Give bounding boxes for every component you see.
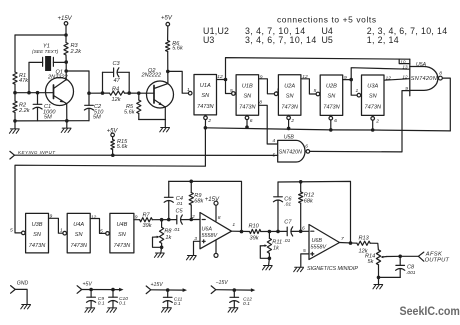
wire Q2 emitter to ground [164,107,166,120]
svg-text:6: 6 [250,118,253,124]
svg-text:6: 6 [305,144,308,150]
capacitor C7 [286,227,288,236]
svg-text:U1A: U1A [200,83,211,89]
svg-text:5: 5 [10,228,13,234]
wire C7 to U6B pin6 [292,230,309,232]
wire Q1 base [15,92,54,94]
svg-text:U3: U3 [203,35,214,45]
svg-text:.01: .01 [284,238,291,244]
svg-text:1, 2, 14: 1, 2, 14 [367,35,399,45]
svg-text:2: 2 [191,214,195,220]
svg-text:1: 1 [187,87,190,93]
wire U6A output [232,230,250,232]
wire C8/R14 to ground [379,276,401,278]
-15V terminal at U6A pin4 [215,240,217,253]
svg-text:7473N: 7473N [114,243,131,249]
ground at R8 [160,247,163,253]
svg-text:SN: SN [75,232,84,238]
svg-text:2.2k: 2.2k [18,108,31,114]
nand gate U5B [278,140,305,162]
wire feedback U1A to U5A pin10 [226,58,410,80]
resistor R15 [112,137,114,140]
svg-text:6: 6 [302,226,305,232]
wire R10 to C7 [261,230,287,232]
svg-text:0.1: 0.1 [174,301,181,307]
wire R14 wiper to output [387,255,419,257]
svg-text:U5B: U5B [284,134,295,140]
keying input arrow [10,151,15,159]
svg-text:U6A: U6A [202,227,213,233]
svg-text:2N2222: 2N2222 [141,73,162,79]
svg-text:SN: SN [118,232,127,238]
svg-text:C3: C3 [113,61,121,67]
svg-text:+5V: +5V [83,282,93,288]
svg-text:3, 4, 6, 7, 10, 14: 3, 4, 6, 7, 10, 14 [245,35,317,45]
ground at R2 [14,121,16,129]
svg-text:.001: .001 [406,270,416,276]
svg-text:68k: 68k [194,198,204,204]
wire bottom rail [15,120,89,122]
svg-text:R10: R10 [249,224,260,230]
resistor R6 [167,26,169,41]
resistor R2 [14,93,16,101]
wire reset bus [205,128,450,131]
svg-text:OUTPUT: OUTPUT [425,258,450,264]
svg-text:GND: GND [17,281,29,287]
pin 2 stub U1A [204,116,208,120]
pin 5 bubble U3B [22,231,26,235]
svg-text:U3B: U3B [32,222,43,228]
resistor R13 [357,241,370,245]
svg-text:U6B: U6B [312,238,323,244]
wire R4 to Q2 base [125,92,147,94]
wire U2B pin9 junction [343,79,352,81]
svg-text:6: 6 [334,118,337,124]
wire R7 to C5 [152,219,176,221]
svg-text:connections to +5 volts: connections to +5 volts [277,15,377,25]
svg-text:7473N: 7473N [239,104,256,110]
capacitor C3 [102,72,104,93]
svg-text:0.1: 0.1 [243,301,250,307]
svg-text:7473N: 7473N [281,104,298,110]
svg-text:8: 8 [218,215,221,221]
svg-text:5.6k: 5.6k [117,144,129,150]
flip-flop U2B [320,75,343,115]
wire bus up to U5A output [442,78,450,131]
resistor R3 [65,35,67,43]
svg-text:U4B: U4B [116,222,127,228]
wire Q2 collector to U1A pin 1 [168,71,188,93]
wire U6B output [340,242,357,245]
svg-text:7473N: 7473N [70,243,87,249]
potentiometer R14 [376,250,380,265]
svg-text:5.6k: 5.6k [172,45,184,51]
wire Q1 collector [65,62,67,80]
svg-text:R12: R12 [304,193,315,199]
ground at R11 [268,258,271,265]
flip-flop U3A [362,75,385,115]
svg-text:12: 12 [91,215,97,221]
resistor R1 [13,72,17,84]
resistor R5 [138,93,140,100]
wire bus to U3B clock [204,126,208,130]
svg-text:C5: C5 [176,208,184,214]
flip-flop U4A [67,213,90,253]
flip-flop U3B [26,213,49,253]
resistor R4 [110,91,125,95]
capacitor C10 [112,290,114,298]
svg-text:+5V: +5V [161,15,173,21]
svg-text:R7: R7 [143,213,151,219]
svg-text:0.1: 0.1 [119,301,126,307]
capacitor C5 [176,215,178,224]
wire collector to C2 [66,70,89,72]
svg-text:C7: C7 [284,220,292,226]
svg-text:U3A: U3A [367,84,378,90]
capacitor C4 [168,181,170,197]
wire U6A pin3 to ground [194,241,201,255]
svg-text:7: 7 [341,236,344,242]
svg-text:1: 1 [232,222,235,228]
potentiometer R8 [161,220,163,228]
wire U1B pin9 to U2A pin1 [259,79,275,94]
svg-text:.01: .01 [284,201,291,207]
wire U4A pin12 to U4B pin5 [90,219,105,234]
svg-text:9: 9 [260,75,263,81]
svg-text:7473N: 7473N [323,105,340,111]
wire U5A pin9 from U5B output [310,91,410,152]
svg-text:5M: 5M [44,115,52,121]
wire keying input line [15,154,278,156]
svg-text:5M: 5M [93,115,101,121]
svg-text:SN: SN [33,232,42,238]
svg-text:SN: SN [243,93,252,99]
wire U3A pin12 to U5A pin12 [385,79,410,81]
wire node to C3/R4 [89,92,110,94]
svg-text:.01: .01 [173,227,180,233]
svg-text:Y1: Y1 [43,44,50,50]
pin 2 stub U3A [371,117,375,121]
svg-text:SeekIC.com: SeekIC.com [400,305,460,318]
transistor Q2 [147,81,174,108]
capacitor C9 [90,290,92,298]
resistor R10 [250,229,261,233]
svg-text:7473N: 7473N [365,105,382,111]
svg-text:AFSK: AFSK [425,251,443,257]
svg-text:5: 5 [303,248,306,254]
wire Q2 collector [167,71,169,83]
svg-text:U2A: U2A [284,83,295,89]
svg-text:.01: .01 [176,201,183,207]
svg-text:0.1: 0.1 [98,301,105,307]
wire U2B pin9 to U5A pin13 [351,68,410,80]
svg-text:39k: 39k [143,223,153,229]
svg-text:U5: U5 [322,35,333,45]
svg-text:+15V: +15V [58,16,73,22]
svg-text:SIGNETICS MINIDIP: SIGNETICS MINIDIP [307,266,358,272]
wire Q1 emitter to ground [66,104,68,121]
wire R13 to R14 [370,243,378,250]
wire +15V to rail [65,26,67,35]
svg-text:(SEE TEXT): (SEE TEXT) [32,49,59,55]
resistor R7 [140,218,153,222]
resistor R12 [299,180,303,184]
svg-text:+15V: +15V [151,282,164,288]
svg-text:SN: SN [286,93,295,99]
svg-text:5.6k: 5.6k [124,110,136,116]
wire top rail to R1 [15,34,66,36]
capacitor C2 [88,93,90,105]
wire feedback line stage 1 [169,181,242,231]
svg-text:U2B: U2B [326,84,337,90]
svg-text:2: 2 [375,118,379,124]
nand gate U5A [410,67,438,91]
GND input [11,286,16,294]
pin 6 stub U2B [329,116,333,120]
op-amp U6A [200,213,232,249]
resistor R9 [189,180,193,184]
capacitor C8 [399,256,401,265]
AFSK output arrow [418,252,423,261]
crystal Y1 [42,57,44,66]
wire U2A pin12 to U2B pin5 [301,79,316,94]
svg-text:47k: 47k [19,78,29,84]
svg-text:47: 47 [114,78,121,84]
svg-text:2.2k: 2.2k [70,49,83,55]
flip-flop U1A [194,75,217,115]
svg-text:2N2222: 2N2222 [47,75,68,81]
svg-text:7473N: 7473N [197,104,214,110]
svg-text:−15V: −15V [216,280,229,286]
wire U6B pin5 to ground [301,254,309,267]
+15V input [146,286,151,294]
-15V input [211,286,216,294]
wire C5 to U6A pin2 [181,219,200,221]
svg-text:39k: 39k [250,235,260,241]
svg-text:13: 13 [402,65,408,70]
wire U3B pin9 to U4A pin1 [49,218,63,233]
svg-text:2: 2 [290,118,294,124]
svg-text:SN7420N: SN7420N [279,150,302,156]
wire U4B pin9 to R7 [134,219,140,221]
svg-text:SN: SN [201,93,210,99]
wire feedback line stage 2 [278,181,351,243]
capacitor C11 [167,290,169,297]
flip-flop U4B [110,213,134,253]
svg-text:12: 12 [402,74,408,79]
svg-text:5558V: 5558V [311,244,328,250]
svg-text:8: 8 [439,71,442,77]
svg-text:4: 4 [272,138,275,144]
wire crystal branch [27,91,31,95]
svg-text:8: 8 [259,100,262,106]
capacitor C1 [36,91,40,95]
svg-text:R13: R13 [359,236,370,242]
wire R5/emitter rail [139,119,166,121]
svg-text:R4: R4 [112,87,119,93]
svg-text:U4A: U4A [73,222,84,228]
capacitor C12 [233,290,235,297]
svg-text:2: 2 [207,118,211,124]
svg-text:68k: 68k [304,199,314,205]
svg-text:U5A: U5A [416,62,427,68]
potentiometer R11 [268,232,270,239]
svg-text:C8: C8 [407,265,415,271]
capacitor C6 [277,182,279,197]
wire U1B pin8 to U5B pin4 [259,105,278,144]
svg-text:R8: R8 [164,229,172,235]
op-amp U6B [309,225,340,260]
wire Q2 base inside circle [146,92,154,94]
svg-text:SN: SN [328,94,337,100]
svg-text:12k: 12k [112,97,122,103]
svg-text:5558V: 5558V [202,233,219,239]
flip-flop U1B [236,75,259,115]
flip-flop U2A [278,75,301,115]
wire U1A pin12 to U1B pin5 [217,79,226,81]
svg-text:KEYING INPUT: KEYING INPUT [18,150,56,155]
+5V input [77,286,82,294]
pin 2 stub U2A [287,116,291,120]
svg-text:U1B: U1B [242,83,253,89]
pin 6 stub U1B [245,116,249,120]
wire U2B pin9 to U3A pin1 [351,80,357,96]
svg-text:SN7420N: SN7420N [411,76,438,82]
pin 1 bubble U1A [188,91,192,95]
transistor Q1 [46,78,74,106]
svg-text:SN: SN [369,94,378,100]
svg-text:7473N: 7473N [29,243,46,249]
